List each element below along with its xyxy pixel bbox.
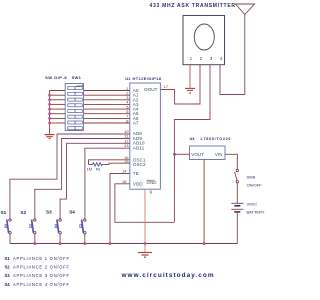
label SW DIP-8 SW1 [45,75,82,80]
encoder U1 box [130,83,161,189]
svg-text:S2: S2 [20,210,26,215]
svg-text:SW DIP-8: SW DIP-8 [45,75,67,80]
wires DIP left side to bus [50,95,66,123]
IC left pin numbers [122,86,129,184]
DIP switch SW1 box [65,84,83,131]
svg-text:BATTERY: BATTERY [247,210,265,215]
junction at VOUT node [173,153,176,156]
svg-text:14: 14 [122,169,127,174]
wire SW8 to battery [236,183,238,203]
svg-text:VDD: VDD [133,181,144,186]
svg-text:17: 17 [164,84,169,89]
DIP ON marker [77,84,83,86]
wire regulator GND to rail [203,160,205,244]
wire TX pin 3 to +5V node [174,65,210,223]
svg-text:APPLIANCE 1 ON/OFF: APPLIANCE 1 ON/OFF [13,256,69,261]
svg-text:SW1: SW1 [72,75,82,80]
switch S2 [30,219,36,244]
svg-text:S1: S1 [5,256,11,261]
label S2 APPLIANCE 2 ON/OFF [5,265,70,270]
wire pin13 to S4 [85,148,130,219]
label S4 APPLIANCE 4 ON/OFF [5,282,70,287]
resistor R1 wires [89,160,130,165]
ground at TX pin 1 [185,88,195,93]
ground below DIP bus [45,135,55,139]
pin number labels 1 2 3 4 [190,56,223,61]
wire IC GND pin 9 [144,189,146,243]
svg-text:S3: S3 [46,209,52,214]
wire pin11 to S2 [35,139,130,219]
RF transmitter module U2 [183,16,225,65]
svg-text:U3: U3 [190,137,195,141]
svg-text:AD11: AD11 [133,145,145,150]
label U3 L7805/TO220 [190,137,231,141]
svg-text:APPLIANCE 4 ON/OFF: APPLIANCE 4 ON/OFF [13,282,69,287]
wire antenna to TX pin 4 [220,65,245,95]
wire VIN to switch SW8 [225,154,237,169]
regulator U3 box [190,146,226,160]
svg-text:U1: U1 [125,76,131,81]
label SW8 ON/OFF [247,175,263,188]
IC pin names left [133,88,146,186]
wire pin10 to S1 [10,134,130,219]
battery BT1 [231,203,243,212]
label 9VDC BATTERY [247,202,265,215]
switch SW8 [235,169,239,183]
svg-text:www.circuitstoday.com: www.circuitstoday.com [121,272,214,279]
wire bus top row [50,91,66,135]
label S1 APPLIANCE 1 ON/OFF [5,256,70,261]
svg-text:S4: S4 [5,282,11,287]
svg-text:1M: 1M [87,167,92,171]
svg-text:9VDC: 9VDC [247,202,258,207]
svg-text:APPLIANCE 2 ON/OFF: APPLIANCE 2 ON/OFF [13,265,69,270]
svg-text:13: 13 [124,143,129,148]
wire TX pin 1 to ground [189,65,191,88]
svg-text:S1: S1 [1,210,7,215]
wire TE to ground rail [110,174,130,244]
svg-text:VOUT: VOUT [191,152,204,157]
svg-text:R1: R1 [96,167,101,171]
svg-text:VIN: VIN [215,152,223,157]
svg-text:SW8: SW8 [247,175,256,180]
svg-text:A7: A7 [133,121,139,126]
switch S3 [55,219,61,244]
DIP rocker rows [68,87,82,130]
junction dots on rail [33,242,205,245]
label S3 APPLIANCE 3 ON/OFF [5,273,70,278]
svg-text:TE: TE [133,171,139,176]
wire pin12 to S3 [60,143,130,219]
svg-text:S3: S3 [5,273,11,278]
svg-text:433 MHZ ASK TRANSMITTER: 433 MHZ ASK TRANSMITTER [150,3,236,9]
svg-text:L7805/TO220: L7805/TO220 [201,137,231,141]
switch S1 [5,219,11,244]
svg-text:GND: GND [147,180,158,185]
wire VOUT to +5V node [174,153,189,155]
svg-text:S4: S4 [69,209,75,214]
svg-text:DOUT: DOUT [144,87,157,92]
resistor R1 [89,163,105,166]
junction dots on bus [48,94,51,125]
svg-text:HT12E/DIP18: HT12E/DIP18 [133,76,162,81]
ground at bottom center [138,244,152,258]
wire battery to ground rail [236,213,238,244]
svg-text:S2: S2 [5,265,11,270]
svg-text:OSC2: OSC2 [133,162,146,167]
wires DIP to IC pins 1-8 [84,91,130,124]
label U1 HT12E/DIP18 [125,76,161,81]
wire VDD to +5V node [115,184,174,223]
label 1M R1 [87,167,101,171]
antenna [236,4,255,95]
wire DOUT to TX pin 2 [160,65,200,104]
switch S4 [80,219,86,244]
svg-text:ON/OFF: ON/OFF [247,182,263,187]
svg-text:APPLIANCE 3 ON/OFF: APPLIANCE 3 ON/OFF [13,273,69,278]
ground rail wire [10,243,237,245]
